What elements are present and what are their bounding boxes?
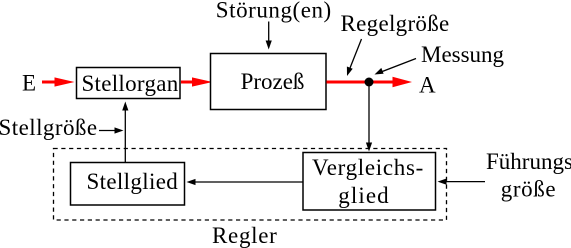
wire red arrow Prozeß to output A: [327, 77, 413, 87]
svg-text:Vergleichs-: Vergleichs-: [312, 155, 424, 180]
wire Regelgröße pointer arrow: [347, 39, 362, 76]
svg-text:Regelgröße: Regelgröße: [341, 11, 450, 36]
svg-text:Stellgröße: Stellgröße: [0, 115, 98, 140]
wire red arrow E to Stellorgan: [42, 77, 75, 86]
wire red arrow Stellorgan to Prozeß: [181, 77, 213, 86]
block Stellorgan: [77, 68, 181, 99]
wire disturbance arrow down into Prozeß: [266, 22, 272, 50]
wire Stellglied up to Stellorgan: [122, 102, 128, 163]
label A: [419, 73, 436, 98]
label Störung(en): [216, 0, 332, 23]
svg-text:Führungs: Führungs: [486, 149, 571, 174]
label Stellgröße: [0, 115, 98, 140]
wire Messung pointer arrow: [375, 59, 417, 75]
wire Vergleichsglied to Stellglied: [187, 179, 304, 185]
block Stellglied: [71, 163, 185, 206]
label Regler: [212, 223, 278, 248]
wire Führungsgröße arrow into Vergleichsglied: [438, 179, 486, 185]
wire Stellgröße pointer arrow: [99, 127, 124, 133]
svg-text:Regler: Regler: [212, 223, 278, 248]
svg-text:größe: größe: [501, 177, 556, 202]
svg-text:A: A: [419, 73, 436, 98]
svg-text:Messung: Messung: [421, 42, 505, 67]
block Vergleichsglied: [303, 153, 436, 211]
node measurement junction dot: [365, 78, 374, 87]
label Regelgröße: [341, 11, 450, 36]
svg-text:Stellglied: Stellglied: [86, 169, 178, 194]
svg-text:Stellorgan: Stellorgan: [81, 71, 178, 96]
label Führungsgröße: [486, 149, 571, 202]
wire junction down to Vergleichsglied: [366, 84, 372, 152]
label Messung: [421, 42, 505, 67]
svg-text:Störung(en): Störung(en): [216, 0, 332, 23]
block Prozeß: [211, 54, 327, 110]
block Regler dashed boundary: [54, 149, 447, 221]
svg-text:E: E: [22, 71, 36, 96]
svg-text:glied: glied: [338, 183, 390, 208]
label E: [22, 71, 36, 96]
svg-text:Prozeß: Prozeß: [241, 69, 305, 94]
